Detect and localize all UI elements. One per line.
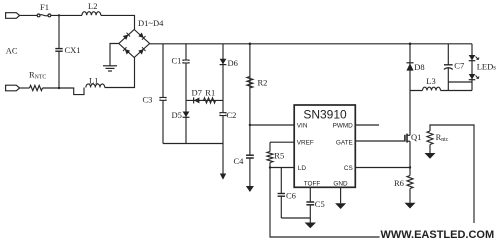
svg-text:L1: L1 — [89, 75, 98, 85]
wire C4 vertical — [249, 125, 251, 155]
resistor Rntc vertical — [427, 131, 449, 153]
svg-text:C2: C2 — [227, 110, 237, 120]
fuse F1 — [37, 2, 51, 17]
wire bottom rail left section — [163, 143, 223, 145]
wire PWMD stub — [355, 124, 379, 126]
svg-text:D7: D7 — [192, 87, 202, 97]
bridge rectifier D1-D4 — [119, 18, 164, 58]
svg-text:L2: L2 — [88, 1, 97, 11]
wire — [101, 15, 135, 29]
ground arrow under C4 — [246, 186, 254, 192]
capacitor C7 — [444, 60, 464, 90]
ground arrow under C5 — [305, 223, 316, 229]
wire LEDs branch vertical — [471, 44, 473, 91]
ground arrow under R6 — [405, 203, 416, 209]
capacitor C5 — [306, 187, 324, 222]
resistor R5 — [267, 142, 284, 162]
wire GND pin vertical — [340, 187, 342, 203]
wire D6/C2 branch vertical — [222, 44, 224, 174]
wire — [20, 14, 38, 16]
svg-text:Rntc: Rntc — [436, 132, 449, 143]
inductor L3 — [423, 76, 441, 90]
capacitor C6 — [278, 168, 296, 219]
svg-text:GND: GND — [333, 180, 348, 187]
wire GATE horizontal — [355, 140, 405, 142]
wire C3 branch vertical — [162, 44, 164, 144]
diode of bridge top-left — [123, 33, 130, 40]
svg-text:SN3910: SN3910 — [303, 108, 347, 122]
diode of bridge top-right — [138, 33, 145, 40]
svg-text:CS: CS — [344, 165, 353, 172]
node VIN junction — [249, 124, 251, 126]
capacitor CX1 — [55, 15, 80, 88]
node D8 top junction — [409, 43, 412, 46]
LED LED1 — [469, 55, 479, 61]
svg-text:VIN: VIN — [297, 122, 308, 129]
svg-text:C6: C6 — [286, 191, 296, 201]
inductor L2 — [82, 1, 101, 15]
wire C1/D5 branch vertical — [185, 44, 187, 144]
svg-text:CX1: CX1 — [65, 45, 81, 55]
svg-text:Q1: Q1 — [411, 132, 421, 142]
svg-text:L3: L3 — [426, 76, 435, 86]
svg-text:GATE: GATE — [336, 139, 353, 146]
svg-text:D6: D6 — [228, 58, 238, 68]
svg-text:C3: C3 — [143, 94, 153, 104]
wire Q1 source vertical — [409, 141, 411, 167]
wire C7 branch vertical — [447, 44, 449, 65]
capacitor C4 — [234, 155, 254, 186]
svg-text:D8: D8 — [414, 62, 424, 72]
svg-text:C5: C5 — [315, 199, 325, 209]
wire VREF horizontal — [270, 141, 294, 143]
wire — [20, 87, 30, 89]
wire LD horizontal — [270, 167, 294, 169]
diode D5 — [172, 110, 190, 120]
diode of bridge bottom-right — [138, 47, 145, 54]
svg-text:AC: AC — [6, 46, 18, 56]
node CX1-top junction — [58, 14, 60, 16]
transistor Q1 — [405, 132, 421, 143]
wire — [43, 88, 85, 95]
svg-text:D5: D5 — [172, 110, 182, 120]
ground (earth) — [103, 66, 117, 71]
wire Q1 drain vertical — [409, 91, 411, 136]
node R5 bottom junction — [269, 166, 271, 168]
wire — [51, 14, 82, 16]
svg-text:C4: C4 — [234, 156, 245, 166]
ground arrow under Rntc — [425, 153, 436, 159]
diode D8 — [406, 62, 424, 72]
capacitor C2 — [219, 110, 236, 120]
ground arrow under D6/C2 line — [220, 174, 226, 180]
resistor R2 — [247, 77, 268, 89]
svg-text:RNTC: RNTC — [29, 70, 46, 81]
svg-text:R1: R1 — [205, 87, 215, 97]
svg-text:LD: LD — [298, 165, 307, 172]
ground arrow under GND pin — [335, 203, 346, 209]
svg-text:R5: R5 — [274, 150, 284, 160]
terminal AC bottom — [6, 85, 20, 91]
wire L1 to bridge bottom — [105, 58, 135, 88]
diode D7 — [192, 87, 202, 103]
node CX1-bottom junction — [58, 87, 60, 89]
svg-text:PWMD: PWMD — [333, 122, 354, 129]
svg-text:R6: R6 — [394, 178, 404, 188]
resistor RNTC — [29, 70, 46, 91]
wire C7 bottom link — [448, 81, 472, 83]
svg-text:VREF: VREF — [297, 139, 314, 146]
svg-text:LEDs: LEDs — [477, 61, 497, 71]
capacitor C3 — [143, 94, 167, 104]
wire Rntc top to right edge — [430, 125, 474, 223]
wire CS horizontal — [355, 167, 410, 169]
LED LED2 — [469, 74, 479, 80]
inductor L1 — [86, 75, 105, 87]
wire left gnd vertical long — [270, 163, 380, 238]
svg-text:F1: F1 — [40, 2, 49, 12]
svg-text:TOFF: TOFF — [304, 180, 321, 187]
resistor R6 — [394, 168, 413, 203]
diode of bridge bottom-left — [123, 47, 130, 54]
wire L3 rail — [410, 90, 472, 92]
wire VIN horizontal — [250, 124, 294, 126]
wire D7/R1 branch horizontal — [186, 99, 223, 101]
svg-text:C1: C1 — [172, 56, 182, 66]
capacitor C1 — [172, 56, 190, 66]
svg-text:D1~D4: D1~D4 — [138, 18, 164, 28]
wire bridge left to ground — [110, 44, 119, 66]
node R2 top junction — [249, 43, 252, 46]
resistor R1 — [204, 87, 216, 103]
wire top rail — [150, 43, 472, 45]
diode D6 — [220, 58, 238, 68]
svg-text:R2: R2 — [258, 78, 268, 88]
svg-text:C7: C7 — [454, 60, 464, 70]
wire bottom rail C6-C5 — [281, 217, 310, 219]
terminal AC top — [6, 13, 20, 19]
svg-text:WWW.EASTLED.COM: WWW.EASTLED.COM — [381, 229, 495, 241]
node CS junction — [409, 166, 411, 168]
wire D8 branch vertical — [409, 44, 411, 91]
wire R2 branch vertical — [249, 44, 251, 125]
op-amp U1 SN3910 IC box — [294, 105, 355, 187]
